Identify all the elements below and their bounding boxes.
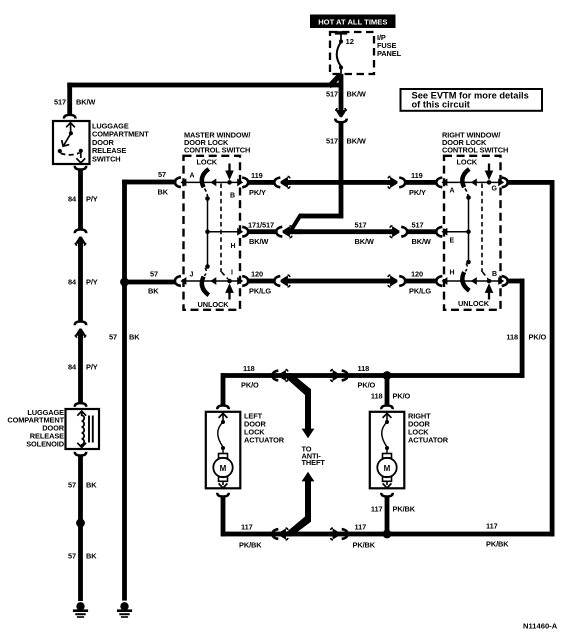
wire: 57 BK below solenoid (78, 456, 83, 602)
svg-text:G: G (492, 186, 498, 193)
wire: 517 BK/W vertical from fuse (339, 74, 344, 108)
pin G arrow (498, 179, 504, 187)
wire: 57 BK master switch ground feed, row A branch (122, 180, 176, 185)
in-line connector on 84 P/Y (2) (75, 322, 86, 326)
master row3 contact line pin J to pin I (184, 280, 239, 282)
svg-text:120: 120 (411, 270, 423, 279)
svg-text:PK/Y: PK/Y (249, 188, 266, 197)
wire: right edge vertical V4 (550, 180, 555, 536)
svg-text:BK/W: BK/W (347, 137, 366, 146)
luggage compartment door release solenoid box (66, 409, 100, 449)
svg-text:SOLENOID: SOLENOID (26, 439, 65, 448)
svg-text:PK/O: PK/O (358, 381, 376, 390)
wire: 119 PK/Y harness run (287, 180, 392, 185)
svg-text:N11460-A: N11460-A (523, 622, 558, 631)
svg-text:A: A (190, 173, 195, 180)
svg-text:57: 57 (68, 481, 76, 490)
connector cup at right pin G (502, 178, 508, 188)
svg-text:118: 118 (243, 364, 255, 373)
right common bar with node dots (466, 195, 471, 200)
svg-text:H: H (231, 243, 236, 250)
wire: 120 PK/LG pigtail from master pin I (248, 279, 274, 284)
connector cup at master pin J (175, 276, 181, 286)
wire: 517 BK/W pigtail to right switch pin E (407, 229, 436, 234)
pin B arrow (237, 179, 243, 187)
fuse F12 element (335, 31, 347, 79)
wire: anti-theft lower shaft (305, 480, 311, 518)
svg-text:PK/BK: PK/BK (486, 540, 509, 549)
svg-text:118: 118 (506, 333, 518, 342)
svg-text:117: 117 (241, 523, 253, 532)
svg-text:LOCK: LOCK (197, 158, 218, 167)
master row3 contact arrow (210, 277, 216, 285)
master switch S1 dashed box (184, 156, 241, 310)
wire: 119 PK/Y pigtail from master pin B (248, 180, 274, 185)
svg-text:PK/BK: PK/BK (353, 541, 376, 550)
svg-text:BK/W: BK/W (412, 237, 431, 246)
connector cup at right actuator output (381, 493, 392, 497)
wire: 120 PK/LG harness run (287, 279, 392, 284)
svg-text:CONTROL SWITCH: CONTROL SWITCH (184, 146, 250, 155)
svg-text:12: 12 (346, 37, 354, 46)
svg-text:PANEL: PANEL (377, 49, 402, 58)
wire: 517 BK/W continues down to row2 jog (339, 123, 344, 219)
svg-text:UNLOCK: UNLOCK (198, 300, 230, 309)
master row2 line to pin H (208, 231, 240, 233)
wire: branch to master pin J (125, 280, 177, 285)
ground G2 (master switch) (117, 602, 132, 618)
svg-text:J: J (190, 272, 194, 279)
svg-text:BK: BK (86, 552, 97, 561)
svg-text:HOT AT ALL TIMES: HOT AT ALL TIMES (318, 18, 387, 27)
wire: 171/517 BK/W pigtail from master pin H (248, 229, 276, 234)
wire: 84 P/Y segment 2 (78, 243, 83, 322)
svg-text:57: 57 (109, 333, 117, 342)
wire: to anti-theft tap (lower diagonal) (286, 517, 312, 537)
left door lock actuator box (206, 412, 241, 489)
svg-text:517: 517 (326, 137, 338, 146)
in-line connector bottom row left (272, 529, 278, 539)
wire: left actuator drop (221, 373, 226, 405)
svg-text:57: 57 (68, 552, 76, 561)
right UNLOCK rocker contact (465, 264, 467, 272)
svg-text:57: 57 (158, 170, 166, 179)
wire: right actuator to bottom junction (385, 496, 390, 536)
in-line connector row1 left (274, 178, 280, 188)
pin I arrow (237, 277, 243, 285)
svg-text:ACTUATOR: ACTUATOR (244, 435, 285, 444)
pin B arrow (right) (498, 277, 504, 285)
svg-text:of this circuit: of this circuit (412, 100, 470, 110)
svg-text:B: B (492, 271, 497, 278)
pin J arrow (180, 277, 186, 285)
svg-text:BK: BK (129, 333, 140, 342)
connector cup at master pin I (242, 276, 248, 286)
wire: 517 BK/W harness run (fed from fuse tap) (289, 229, 392, 234)
svg-text:UNLOCK: UNLOCK (458, 299, 490, 308)
connector at left actuator input (217, 406, 228, 410)
splice junction V2 to pin J branch (120, 278, 129, 287)
svg-text:BK: BK (158, 188, 169, 197)
corner bevel at fuse tap (329, 75, 341, 87)
svg-text:H: H (450, 270, 455, 277)
svg-text:PK/Y: PK/Y (409, 188, 426, 197)
master linkage dashed bar (220, 184, 222, 273)
svg-text:117: 117 (355, 523, 367, 532)
svg-text:517: 517 (54, 98, 66, 107)
wire: right actuator drop (385, 376, 390, 406)
svg-text:BK: BK (86, 481, 97, 490)
right actuator internals (377, 413, 396, 488)
wire: 57 BK vertical V2 (122, 180, 127, 601)
master row1 contact line pin A to pin B (184, 181, 239, 183)
wire jog: horizontal at y=216 then diagonal to row2 junction (299, 214, 343, 219)
svg-text:57: 57 (150, 270, 158, 279)
luggage switch internals (58, 123, 86, 163)
in-line connector on 517 BK/W (335, 107, 347, 117)
svg-text:ACTUATOR: ACTUATOR (408, 435, 449, 444)
connector cup at right pin A (436, 178, 442, 188)
svg-text:120: 120 (251, 270, 263, 279)
svg-text:517: 517 (326, 90, 338, 99)
right LOCK rocker contact (462, 169, 469, 187)
svg-text:SWITCH: SWITCH (92, 154, 121, 163)
master UNLOCK actuation arrow (227, 279, 232, 284)
svg-text:CONTROL SWITCH: CONTROL SWITCH (442, 146, 508, 155)
connector cup at master pin A (175, 177, 181, 187)
wire: 120 PK/LG pigtail to right switch pin H (405, 279, 436, 284)
svg-text:119: 119 (251, 171, 263, 180)
pin A arrow (right) (441, 179, 447, 187)
svg-text:PK/O: PK/O (529, 333, 547, 342)
svg-text:B: B (230, 193, 235, 200)
connector cup at right pin E (436, 227, 442, 237)
fuse panel dashed box (330, 32, 374, 74)
in-line connector on 84 P/Y (1) (75, 230, 86, 234)
in-line connector top row right (330, 370, 340, 382)
wire: pin B feed, corner down (508, 279, 525, 284)
connector at right actuator input (381, 406, 392, 410)
svg-text:E: E (450, 238, 455, 245)
svg-text:84: 84 (68, 363, 77, 372)
right window/door lock switch S2 dashed box (444, 156, 501, 310)
svg-text:517: 517 (412, 220, 424, 229)
svg-text:BK/W: BK/W (249, 237, 268, 246)
wire: to anti-theft tap (upper diagonal) (286, 373, 312, 395)
svg-text:M: M (384, 464, 391, 473)
svg-text:P/Y: P/Y (86, 195, 98, 204)
svg-text:117: 117 (486, 522, 498, 531)
wire: 84 P/Y segment 1 (78, 169, 83, 229)
in-line connector bottom row right (330, 528, 340, 540)
right row3 contact line pin H to pin B (445, 280, 500, 282)
master UNLOCK rocker contact (204, 268, 206, 276)
right row1 contact arrow (471, 179, 477, 187)
in-line connector row3 left (274, 276, 280, 286)
svg-text:PK/LG: PK/LG (249, 286, 271, 295)
wire: 118 PK/O vertical from pin B (520, 279, 525, 378)
svg-text:I: I (231, 270, 233, 277)
svg-text:THEFT: THEFT (302, 458, 326, 467)
svg-text:PK/BK: PK/BK (239, 541, 262, 550)
connector cup at right pin B (502, 276, 508, 286)
master common bar with node dots (205, 196, 210, 201)
wire: 119 PK/Y pigtail to right switch pin A (405, 180, 436, 185)
pin H arrow (237, 228, 243, 236)
connector cup at solenoid input (75, 403, 86, 407)
wire: 118 PK/O horizontal actuator feed (221, 373, 525, 378)
svg-text:BK/W: BK/W (76, 98, 95, 107)
right row2 line from pin E (445, 231, 469, 233)
svg-text:517: 517 (355, 220, 367, 229)
right row1 contact line pin A to pin G (445, 181, 500, 183)
svg-text:84: 84 (68, 195, 77, 204)
solenoid internals: coil and core (77, 411, 93, 447)
right LOCK actuation arrow (487, 180, 492, 185)
right door lock actuator box (370, 412, 405, 489)
connector cup at right pin H (436, 276, 442, 286)
svg-text:P/Y: P/Y (86, 278, 98, 287)
in-line connector row2 right (389, 226, 399, 238)
svg-text:171/517: 171/517 (248, 220, 274, 229)
connector cup at luggage switch output (75, 166, 86, 170)
pin A arrow (180, 179, 186, 187)
connector cup at master pin H (242, 227, 248, 237)
svg-text:BK/W: BK/W (355, 237, 374, 246)
svg-text:A: A (450, 188, 455, 195)
arrow from anti-theft (up) (302, 472, 315, 482)
master LOCK actuation arrow (227, 180, 232, 185)
pin E arrow (441, 228, 447, 236)
svg-text:PK/O: PK/O (393, 392, 411, 401)
power feed label HOT AT ALL TIMES (310, 15, 396, 29)
svg-text:117: 117 (371, 505, 383, 514)
svg-text:M: M (220, 464, 227, 473)
svg-text:PK/LG: PK/LG (409, 286, 431, 295)
wire: 517 BK/W drop into luggage switch (67, 83, 72, 116)
in-line connector row1 right (387, 176, 397, 188)
connector cup at left actuator output (217, 493, 228, 497)
master row1 contact arrow (210, 179, 216, 187)
svg-text:84: 84 (68, 278, 77, 287)
svg-text:119: 119 (411, 171, 423, 180)
wire: 84 P/Y segment 3 (78, 335, 83, 403)
svg-text:118: 118 (358, 364, 370, 373)
in-line connector row2 left (276, 227, 282, 237)
junction dot at right actuator return (383, 530, 392, 539)
connector cup at solenoid output (75, 452, 86, 456)
connector cup at master pin B (242, 178, 248, 188)
note box: See EVTM for more details of this circuit (401, 89, 543, 111)
left actuator internals (213, 413, 232, 488)
junction dot at right actuator feed (383, 371, 392, 380)
wire: pin G feed to right edge (508, 180, 555, 185)
luggage compartment door release switch box (53, 121, 90, 164)
svg-text:118: 118 (371, 392, 383, 401)
ground G1 (solenoid) (73, 602, 88, 618)
wire: fuse output horizontal run to luggage switch (67, 83, 340, 88)
svg-text:P/Y: P/Y (86, 363, 98, 372)
wire: 117 PK/BK bottom horizontal (221, 532, 555, 537)
wire: left actuator to bottom run (221, 496, 226, 536)
svg-text:BK/W: BK/W (347, 90, 366, 99)
wire: anti-theft upper shaft (305, 390, 311, 430)
svg-text:LOCK: LOCK (457, 158, 478, 167)
right linkage dashed bar (481, 184, 483, 273)
splice junction on 57 BK (76, 519, 85, 528)
in-line connector row3 right (387, 275, 397, 287)
in-line connector top row left (272, 371, 278, 381)
svg-text:BK: BK (148, 287, 159, 296)
arrow to anti-theft (down) (302, 429, 315, 439)
right row3 contact arrow (471, 277, 477, 285)
connector cup at luggage switch input (64, 115, 75, 119)
right UNLOCK actuation arrow (487, 279, 492, 284)
svg-text:PK/O: PK/O (241, 381, 259, 390)
svg-text:PK/BK: PK/BK (393, 505, 416, 514)
master LOCK rocker contact (202, 169, 209, 187)
pin H arrow (right) (441, 277, 447, 285)
